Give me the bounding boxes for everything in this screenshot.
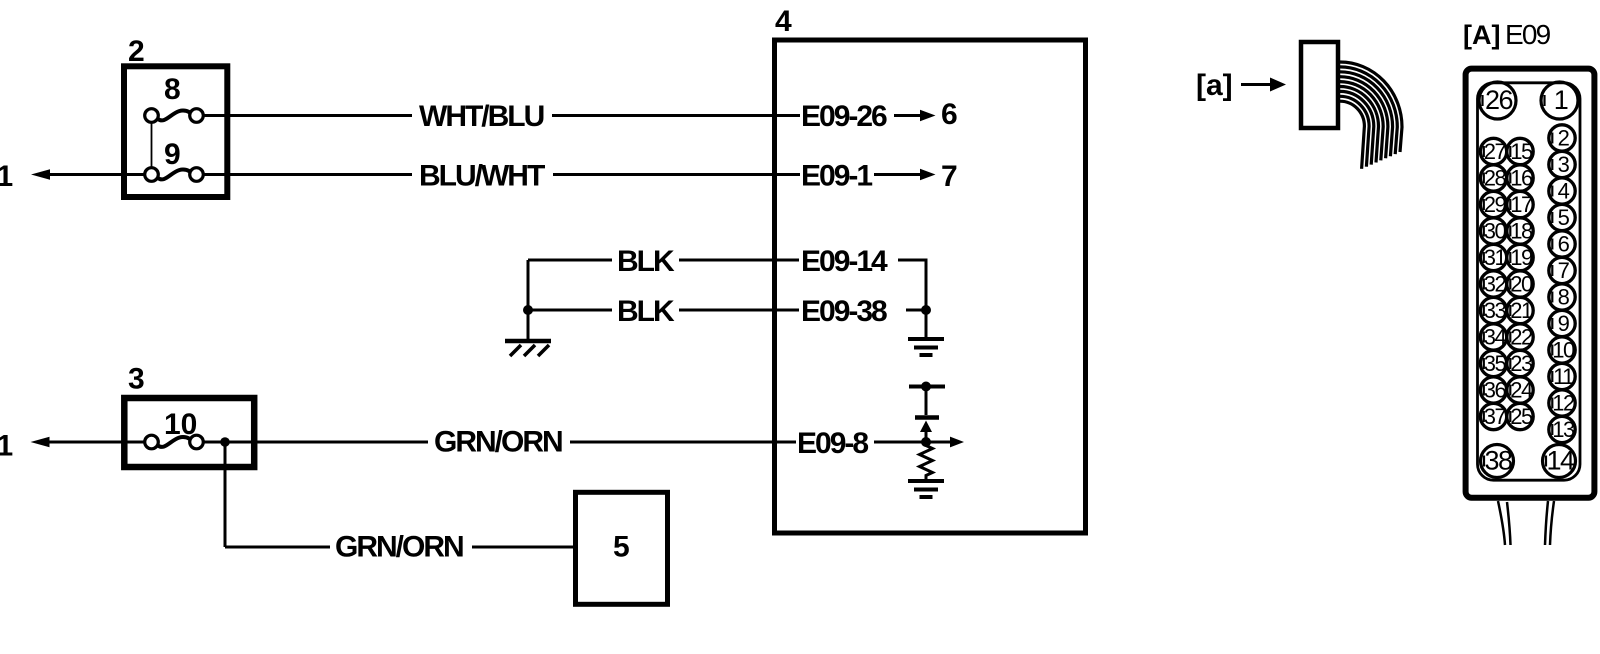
pin 13 [1549,416,1575,442]
junction at fuse 10 output [220,437,230,447]
pin 34 [1480,324,1506,350]
svg-text:E09-14: E09-14 [801,245,888,278]
wire WHT/BLU left segment [204,114,413,117]
harness connector block [1301,42,1338,128]
pin 24 [1507,377,1533,403]
pin 18 [1507,218,1533,244]
svg-text:E09-38: E09-38 [801,295,887,328]
svg-text:29: 29 [1484,192,1507,217]
svg-text:33: 33 [1484,298,1507,323]
svg-text:BLU/WHT: BLU/WHT [419,160,545,193]
wire arrow upper-left [31,169,144,180]
svg-text:14: 14 [1546,446,1575,476]
svg-text:26: 26 [1485,85,1513,115]
junction E09-8 [921,437,931,447]
pin 25 [1507,403,1533,429]
svg-text:13: 13 [1552,417,1575,442]
svg-text:[a]: [a] [1196,69,1233,102]
fuse link line [151,123,153,169]
pin label E09-1 [777,160,872,193]
svg-text:3: 3 [1558,152,1570,177]
pin 32 [1480,271,1506,297]
svg-text:31: 31 [1484,245,1507,270]
arrow [a] [1241,78,1286,92]
svg-text:11: 11 [1553,364,1574,389]
pin 29 [1480,191,1506,217]
wire BLK upper [528,245,799,278]
fuse 8 [145,73,204,122]
wire BLU/WHT left segment [121,173,412,176]
svg-text:2: 2 [1558,126,1570,151]
svg-text:23: 23 [1510,351,1533,376]
svg-text:34: 34 [1484,325,1507,350]
svg-text:6: 6 [941,98,958,131]
svg-text:17: 17 [1510,192,1533,217]
svg-text:1: 1 [0,160,13,193]
wire BLK lower [528,295,799,328]
svg-text:E09: E09 [1505,19,1551,50]
ECM box 4 [775,40,1086,533]
svg-text:36: 36 [1484,378,1507,403]
pin label E09-8 [777,427,950,460]
svg-text:1: 1 [1554,85,1568,115]
svg-text:19: 19 [1510,245,1533,270]
svg-text:4: 4 [1558,179,1570,204]
fuse 10 [145,408,204,449]
svg-text:38: 38 [1484,446,1512,476]
pin label E09-14 [801,245,926,310]
pin 36 [1480,377,1506,403]
svg-text:E09-26: E09-26 [801,100,887,133]
resistor [920,442,933,481]
wire GRN/ORN lower [225,531,575,564]
svg-text:24: 24 [1510,378,1533,403]
svg-text:9: 9 [1558,311,1570,336]
fuse 9 [145,138,204,181]
pin label E09-26 [777,100,887,133]
svg-text:BLK: BLK [617,295,675,328]
pin 2 [1549,125,1575,151]
wire GRN/ORN upper [204,426,795,459]
pin 20 [1507,271,1533,297]
pin 17 [1507,191,1533,217]
pin label E09-38 [801,295,926,328]
svg-text:18: 18 [1510,219,1533,244]
svg-text:GRN/ORN: GRN/ORN [434,426,562,459]
pin 27 [1480,138,1506,164]
svg-text:7: 7 [1558,258,1570,283]
pin 5 [1549,204,1575,230]
svg-text:WHT/BLU: WHT/BLU [419,100,544,133]
pin 22 [1507,324,1533,350]
component box 5 [576,492,668,604]
svg-text:5: 5 [613,531,630,564]
pin 31 [1480,244,1506,270]
pin 15 [1507,138,1533,164]
svg-text:7: 7 [941,160,958,193]
svg-text:20: 20 [1510,272,1533,297]
pin 1 [1541,82,1578,119]
pin 12 [1549,390,1575,416]
pin 10 [1549,337,1575,363]
earth ground (upper right) [908,339,944,355]
earth ground (lower right) [908,481,944,497]
svg-text:35: 35 [1484,351,1507,376]
svg-text:4: 4 [775,5,792,38]
pin 33 [1480,297,1506,323]
pin 26 [1479,82,1516,119]
svg-text:15: 15 [1510,139,1533,164]
pin 9 [1549,310,1575,336]
pin 14 [1543,445,1576,478]
svg-text:8: 8 [164,73,181,106]
wire BLK vertical left [527,260,530,339]
pin 19 [1507,244,1533,270]
svg-text:9: 9 [164,138,181,171]
pin 21 [1507,297,1533,323]
svg-text:BLK: BLK [617,245,675,278]
svg-text:E09-8: E09-8 [797,427,868,460]
svg-text:16: 16 [1510,166,1533,191]
svg-text:27: 27 [1484,139,1507,164]
arrow to 6 [894,98,958,131]
chassis ground (left) [505,341,551,356]
svg-text:6: 6 [1558,232,1570,257]
wire arrow lower-left [31,437,144,448]
pin 11 [1549,363,1575,389]
svg-text:[A]: [A] [1463,20,1500,50]
arrow to 7 [874,160,958,193]
svg-text:5: 5 [1558,205,1570,230]
svg-text:22: 22 [1510,325,1533,350]
harness wires [1340,62,1402,169]
svg-text:GRN/ORN: GRN/ORN [335,531,463,564]
wire down from junction [224,442,227,547]
pin 28 [1480,165,1506,191]
pin 37 [1480,403,1506,429]
svg-text:1: 1 [0,430,13,463]
junction box 2 [124,66,227,197]
pin 30 [1480,218,1506,244]
connector E09 inner face [1478,83,1581,480]
connector leg right [1545,501,1554,545]
pin 23 [1507,350,1533,376]
pin 8 [1549,284,1575,310]
label [A] E09 [1463,19,1551,50]
svg-text:12: 12 [1552,391,1575,416]
pin 35 [1480,350,1506,376]
connector E09 body [1466,69,1595,498]
wire BLU/WHT right segment [553,173,799,176]
svg-text:2: 2 [128,35,145,68]
svg-text:21: 21 [1510,298,1533,323]
svg-text:8: 8 [1558,285,1570,310]
svg-text:37: 37 [1484,404,1507,429]
pin 3 [1549,151,1575,177]
svg-text:3: 3 [128,363,145,396]
svg-text:32: 32 [1484,272,1507,297]
internal power rail bar [909,382,945,392]
pin 7 [1549,257,1575,283]
svg-text:E09-1: E09-1 [801,160,872,193]
junction E09-38 [921,305,931,315]
arrow right of E09-8 [950,437,964,448]
svg-text:28: 28 [1484,166,1507,191]
junction BLK [523,305,533,315]
junction box 3 [124,398,254,467]
diode (cathode up) [915,418,939,443]
wire to ground right [925,310,928,339]
pin 6 [1549,231,1575,257]
svg-text:30: 30 [1484,219,1507,244]
pin 4 [1549,178,1575,204]
pin 38 [1481,445,1514,478]
pin 16 [1507,165,1533,191]
connector leg left [1498,501,1511,545]
wire WHT/BLU right segment [552,114,799,117]
svg-text:25: 25 [1510,404,1533,429]
wire rail to diode [925,387,928,416]
svg-text:10: 10 [1552,338,1575,363]
